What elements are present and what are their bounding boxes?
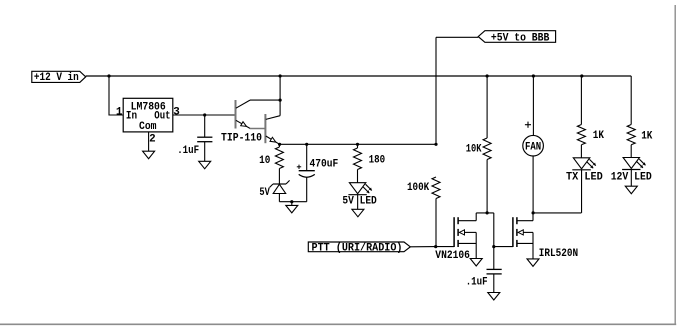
node +5V to BBB tag xyxy=(478,31,555,43)
wire drain node xyxy=(476,212,494,214)
node junction 10K-drain xyxy=(486,211,489,214)
wire PTT to gate xyxy=(410,246,435,248)
svg-text:.1uF: .1uF xyxy=(466,277,488,289)
resistor R6 1K xyxy=(630,76,632,125)
svg-text:5V: 5V xyxy=(259,187,270,199)
transistor Q2 VN2106 mosfet xyxy=(453,217,455,247)
svg-text:Out: Out xyxy=(154,111,170,123)
node junction gate-cap xyxy=(492,245,495,248)
svg-text:TIP-110: TIP-110 xyxy=(221,133,262,145)
svg-text:FAN: FAN xyxy=(525,141,541,153)
node junction PTT-gate xyxy=(434,245,437,248)
ground 12V LED xyxy=(625,186,637,194)
wire cap stem xyxy=(204,115,206,137)
wire +12V rail xyxy=(86,75,632,77)
capacitor C3 .1uF xyxy=(493,247,495,270)
svg-text:100K: 100K xyxy=(407,182,430,194)
motor FAN xyxy=(523,135,544,156)
wire +5V feed vertical xyxy=(435,37,437,144)
node junction rail-regulator xyxy=(107,74,110,77)
wire regulator output xyxy=(173,114,236,116)
svg-text:1K: 1K xyxy=(593,130,605,142)
node junction rail-TX xyxy=(580,74,583,77)
svg-text:5V LED: 5V LED xyxy=(342,196,377,208)
resistor R5 1K xyxy=(580,76,582,125)
wire zener-cap ground link xyxy=(279,201,306,203)
resistor R3 100K xyxy=(432,177,440,199)
wire Com pin 2 xyxy=(148,132,150,151)
resistor R2 180 xyxy=(357,144,359,148)
ground cap C1 xyxy=(199,161,211,169)
svg-text:180: 180 xyxy=(369,154,386,166)
node PTT tag xyxy=(308,242,410,252)
diode D1 zener 5V xyxy=(273,183,286,185)
node junction resistor 180 xyxy=(356,143,359,146)
svg-text:IRL520N: IRL520N xyxy=(539,248,578,260)
node +12V tag xyxy=(32,71,86,82)
ground cap C3 xyxy=(488,293,500,301)
ground 5V LED xyxy=(352,209,364,217)
wire 10ohm to zener xyxy=(278,169,280,185)
node junction 100K xyxy=(434,143,437,146)
node junction ground xyxy=(290,200,293,203)
svg-text:470uF: 470uF xyxy=(310,159,339,171)
LED D2 5V LED xyxy=(349,183,365,194)
resistor R4 10K xyxy=(486,76,488,138)
wire regulated node xyxy=(280,143,436,145)
svg-text:+5V to BBB: +5V to BBB xyxy=(491,32,550,44)
node junction rail-collector xyxy=(279,74,282,77)
window border bottom xyxy=(0,323,676,325)
wire fan negative xyxy=(532,156,534,213)
wire regulator input xyxy=(109,76,123,115)
capacitor C1 .1uF xyxy=(197,136,212,138)
node junction fan-drain xyxy=(532,211,535,214)
svg-text:In: In xyxy=(126,111,137,123)
node junction output-cap xyxy=(203,113,206,116)
svg-text:2: 2 xyxy=(149,133,156,145)
svg-text:1K: 1K xyxy=(641,130,653,142)
transistor Q3 IRL520N mosfet xyxy=(512,217,514,247)
window border right xyxy=(674,5,676,324)
capacitor C2 470uF xyxy=(306,144,308,170)
wire fan positive xyxy=(532,76,534,135)
node junction rail-fan xyxy=(532,74,535,77)
svg-text:10: 10 xyxy=(259,155,270,167)
svg-text:VN2106: VN2106 xyxy=(435,250,470,262)
svg-text:.1uF: .1uF xyxy=(177,145,199,157)
node junction rail-10K xyxy=(486,74,489,77)
resistor R1 10 xyxy=(278,144,280,147)
LED D3 TX LED xyxy=(573,158,590,169)
regulator U1 LM7806 xyxy=(123,98,173,132)
ground VN2106 source xyxy=(470,259,482,267)
node junction collectors xyxy=(279,99,282,102)
svg-text:Com: Com xyxy=(139,121,157,133)
svg-text:10K: 10K xyxy=(466,143,482,155)
svg-text:+12 V in: +12 V in xyxy=(34,72,79,84)
LED D4 12V LED xyxy=(623,158,639,169)
ground zener xyxy=(291,202,293,206)
svg-text:TX LED: TX LED xyxy=(566,172,603,184)
svg-text:3: 3 xyxy=(173,107,180,119)
ground IRL520N source xyxy=(527,259,539,267)
ground regulator Com xyxy=(143,151,155,159)
svg-text:1: 1 xyxy=(116,107,123,119)
wire drain-TXLED xyxy=(533,212,581,214)
node junction cap 470uF xyxy=(305,143,308,146)
svg-text:PTT (URI/RADIO): PTT (URI/RADIO) xyxy=(312,242,403,254)
wire gate feed xyxy=(493,213,495,247)
transistor Q1 TIP-110 darlington xyxy=(235,100,237,129)
node junction emitter xyxy=(278,143,281,146)
